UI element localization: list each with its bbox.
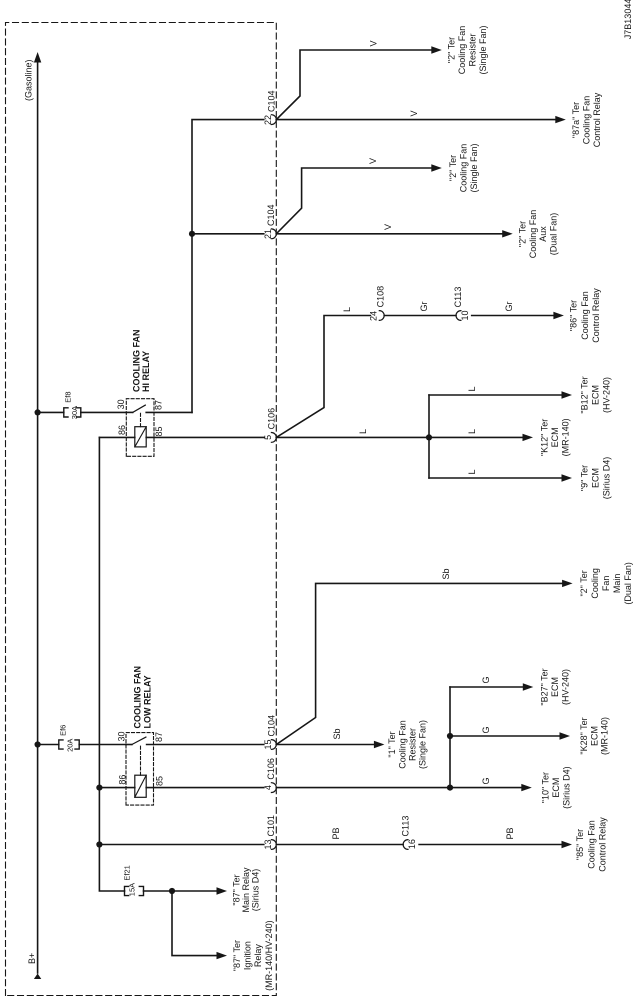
svg-text:"K28" Ter: "K28" Ter [579, 717, 589, 754]
HI relay switch 30-87 [116, 399, 192, 412]
svg-text:G: G [481, 676, 491, 683]
svg-text:C101: C101 [266, 815, 276, 837]
svg-text:Resister: Resister [468, 33, 478, 66]
wire pin15 branch to 2 Ter Main [276, 568, 572, 744]
svg-text:COOLING FAN: COOLING FAN [131, 330, 141, 393]
svg-text:(Single Fan): (Single Fan) [418, 720, 428, 769]
svg-text:Resister: Resister [407, 728, 417, 761]
svg-text:(HV-240): (HV-240) [602, 377, 612, 413]
LOW relay switch 30-87 [117, 731, 264, 744]
wire bus junction dots [35, 409, 41, 747]
svg-text:C104: C104 [267, 715, 277, 737]
wire pin5 branch to 86 Ter [276, 307, 370, 437]
relay box COOLING FAN HI RELAY [126, 330, 154, 457]
fuse/relay box dashed border [6, 23, 277, 996]
svg-text:"86" Ter: "86" Ter [569, 300, 579, 331]
svg-text:"2" Ter: "2" Ter [518, 221, 528, 247]
svg-text:C113: C113 [401, 816, 411, 837]
svg-text:13: 13 [263, 839, 273, 849]
svg-text:Relay: Relay [253, 944, 263, 968]
wire coil feed bus [96, 437, 124, 891]
svg-text:30: 30 [116, 399, 126, 409]
svg-text:C104: C104 [267, 90, 277, 112]
svg-text:C108: C108 [376, 286, 386, 308]
svg-text:Cooling: Cooling [590, 568, 600, 599]
svg-text:Cooling Fan: Cooling Fan [528, 210, 538, 259]
svg-text:PB: PB [331, 827, 341, 839]
svg-text:"9" Ter: "9" Ter [580, 465, 590, 491]
svg-text:Main: Main [612, 574, 622, 594]
svg-text:Cooling Fan: Cooling Fan [459, 144, 469, 193]
svg-text:Ef8: Ef8 [64, 391, 73, 402]
svg-text:(Sirius D4): (Sirius D4) [561, 766, 571, 809]
wire branch to 87 Ter Ignition Relay [172, 891, 227, 959]
svg-text:Aux: Aux [538, 226, 548, 242]
svg-text:COOLING FAN: COOLING FAN [132, 666, 142, 729]
svg-text:15A: 15A [128, 883, 137, 896]
svg-text:"2" Ter: "2" Ter [579, 570, 589, 596]
svg-text:"10" Ter: "10" Ter [541, 772, 551, 803]
label B27 Ter ECM (HV-240) [540, 668, 571, 705]
wire pin15 to 1 Ter Resister [276, 728, 384, 748]
svg-text:(MR-140): (MR-140) [561, 418, 571, 456]
wire pin21 branch to 2 Ter Single Fan [276, 158, 442, 234]
fuse Ef21 15A [122, 865, 172, 896]
wire C113 to 86 Ter arrow [472, 301, 564, 319]
wire C113 to 85 Ter arrow [419, 827, 572, 848]
svg-text:Sb: Sb [441, 568, 451, 579]
connector C104 pin 22 [263, 90, 277, 125]
wire L branch B12 and 9 [429, 386, 572, 481]
wire pin5 main run to K12 [276, 429, 533, 441]
label 2 Ter Cooling Fan Resister (Single Fan) [446, 25, 488, 74]
svg-text:C104: C104 [266, 204, 276, 226]
svg-text:(Dual Fan): (Dual Fan) [623, 562, 633, 605]
svg-text:Control Relay: Control Relay [598, 817, 608, 872]
svg-text:21: 21 [263, 229, 273, 239]
svg-text:Ignition: Ignition [243, 941, 253, 970]
connector C106 pin 5 [263, 408, 276, 442]
svg-text:V: V [409, 110, 419, 116]
svg-text:"87" Ter: "87" Ter [232, 874, 242, 905]
svg-text:(Gasoline): (Gasoline) [23, 59, 33, 101]
label 87 Ter Main Relay (Sirius D4) [232, 867, 261, 913]
label 86 Ter Cooling Fan Control Relay [569, 288, 602, 343]
svg-text:"87" Ter: "87" Ter [232, 940, 242, 971]
svg-text:ECM: ECM [591, 468, 601, 488]
svg-text:"85" Ter: "85" Ter [575, 829, 585, 860]
svg-text:V: V [383, 224, 393, 230]
svg-text:16: 16 [407, 839, 417, 849]
svg-text:Cooling Fan: Cooling Fan [581, 96, 591, 145]
node B+ bus [23, 52, 41, 979]
label 10 Ter ECM (Sirius D4) [541, 766, 572, 809]
label 1 Ter Cooling Fan Resister (Single Fan) [387, 720, 427, 769]
wire pin13 to C113 [276, 827, 403, 844]
svg-text:Cooling Fan: Cooling Fan [457, 26, 467, 75]
relay box COOLING FAN LOW RELAY [126, 666, 154, 805]
svg-text:PB: PB [505, 827, 515, 839]
svg-text:(HV-240): (HV-240) [561, 669, 571, 705]
svg-text:L: L [342, 307, 352, 312]
svg-text:G: G [481, 726, 491, 733]
svg-text:L: L [467, 429, 477, 434]
HI relay coil 86-85 [99, 413, 263, 447]
fuse Ef8 30A [38, 391, 127, 419]
svg-text:L: L [358, 429, 368, 434]
wire pin4 to 10 Ter [276, 777, 532, 791]
svg-text:24: 24 [369, 311, 379, 321]
svg-text:LOW RELAY: LOW RELAY [142, 675, 152, 728]
fuse Ef6 20A [38, 725, 126, 752]
svg-text:85: 85 [154, 426, 164, 436]
connector C113 pin 10 [453, 287, 470, 321]
svg-text:20A: 20A [66, 739, 75, 752]
wire pin21 to 2 Ter Aux [276, 224, 512, 238]
svg-text:22: 22 [263, 115, 273, 125]
svg-text:30: 30 [117, 731, 127, 741]
svg-text:Gr: Gr [419, 301, 429, 311]
svg-text:Cooling Fan: Cooling Fan [397, 720, 407, 769]
svg-text:"2" Ter: "2" Ter [448, 155, 458, 181]
wire G branch B27 and K28 [447, 676, 570, 787]
svg-text:ECM: ECM [550, 677, 560, 697]
connector C106 pin 4 [263, 758, 276, 792]
svg-text:86: 86 [117, 775, 127, 785]
connector C108 pin 24 [369, 286, 386, 321]
svg-text:"B12" Ter: "B12" Ter [580, 376, 590, 413]
svg-text:87: 87 [154, 732, 164, 742]
svg-text:(MR-140): (MR-140) [600, 717, 610, 755]
svg-text:Gr: Gr [504, 301, 514, 311]
svg-text:"K12" Ter: "K12" Ter [540, 419, 550, 456]
label 87a Ter Cooling Fan Control Relay [571, 92, 602, 147]
svg-text:V: V [368, 158, 378, 164]
svg-text:10: 10 [460, 310, 470, 320]
svg-text:Control Relay: Control Relay [592, 92, 602, 147]
svg-text:(Single Fan): (Single Fan) [469, 143, 479, 192]
svg-text:C106: C106 [266, 758, 276, 780]
svg-text:G: G [481, 777, 491, 784]
svg-text:Cooling Fan: Cooling Fan [580, 291, 590, 340]
svg-text:ECM: ECM [550, 427, 560, 447]
connector C104 pin 21 [263, 204, 276, 239]
wire HI 87 output run [189, 120, 264, 413]
svg-text:Ef6: Ef6 [59, 725, 68, 736]
label K28 Ter ECM (MR-140) [579, 717, 610, 755]
svg-text:"87a" Ter: "87a" Ter [571, 102, 581, 138]
label B12 Ter ECM (HV-240) [580, 376, 612, 413]
connector C101 pin 13 [263, 815, 276, 850]
LOW relay coil 86-85 [99, 745, 263, 797]
svg-text:(Dual Fan): (Dual Fan) [548, 213, 558, 256]
svg-text:ECM: ECM [591, 385, 601, 405]
wire pin22 branch to 2 Ter Resister [276, 40, 442, 119]
svg-text:86: 86 [117, 425, 127, 435]
wire C101 drop [99, 844, 263, 846]
label K12 Ter ECM (MR-140) [540, 418, 571, 456]
svg-text:(Sirius D4): (Sirius D4) [251, 869, 261, 912]
svg-text:B+: B+ [27, 953, 37, 964]
wire C108 to C113 [384, 301, 456, 315]
svg-text:85: 85 [155, 776, 165, 786]
svg-text:Cooling Fan: Cooling Fan [586, 820, 596, 869]
svg-text:Sb: Sb [332, 728, 342, 739]
svg-text:(Sirius D4): (Sirius D4) [602, 457, 612, 500]
label diagram code J7B13044 [623, 0, 633, 39]
svg-text:L: L [467, 469, 477, 474]
svg-text:"1" Ter: "1" Ter [387, 731, 397, 757]
connector C113 pin 16 [401, 816, 418, 850]
svg-text:C113: C113 [453, 287, 463, 308]
svg-text:Main Relay: Main Relay [241, 867, 251, 913]
svg-text:4: 4 [263, 785, 273, 790]
svg-text:87: 87 [153, 400, 163, 410]
label 2 Ter Cooling Fan Aux (Dual Fan) [518, 210, 559, 259]
svg-text:ECM: ECM [589, 726, 599, 746]
wire pin22 to 87a Ter [276, 110, 566, 123]
svg-text:30A: 30A [70, 406, 79, 419]
svg-text:V: V [369, 40, 379, 46]
label 87 Ter Ignition Relay (MR-140/HV-240) [232, 920, 274, 991]
svg-text:(MR-140/HV-240): (MR-140/HV-240) [264, 920, 274, 991]
svg-text:Ef21: Ef21 [122, 865, 131, 880]
svg-text:"B27" Ter: "B27" Ter [540, 668, 550, 705]
label 9 Ter ECM (Sirius D4) [580, 457, 612, 500]
svg-text:Control Relay: Control Relay [591, 288, 601, 343]
label 85 Ter Cooling Fan Control Relay [575, 817, 608, 872]
svg-text:15: 15 [263, 739, 273, 749]
svg-text:HI RELAY: HI RELAY [141, 351, 151, 392]
svg-text:5: 5 [263, 435, 273, 440]
svg-text:C106: C106 [267, 408, 277, 430]
connector C104 pin 15 [263, 715, 276, 750]
wire Ef21 out to 87 Ter Main Relay [169, 887, 227, 894]
label 2 Ter Cooling Fan Main (Dual Fan) [579, 562, 633, 605]
svg-text:(Single Fan): (Single Fan) [478, 25, 488, 74]
svg-text:Fan: Fan [601, 576, 611, 592]
svg-text:"2" Ter: "2" Ter [446, 37, 456, 63]
svg-text:L: L [467, 386, 477, 391]
svg-text:ECM: ECM [551, 778, 561, 798]
label 2 Ter Cooling Fan (Single Fan) [448, 143, 479, 192]
svg-text:J7B13044: J7B13044 [623, 0, 633, 39]
